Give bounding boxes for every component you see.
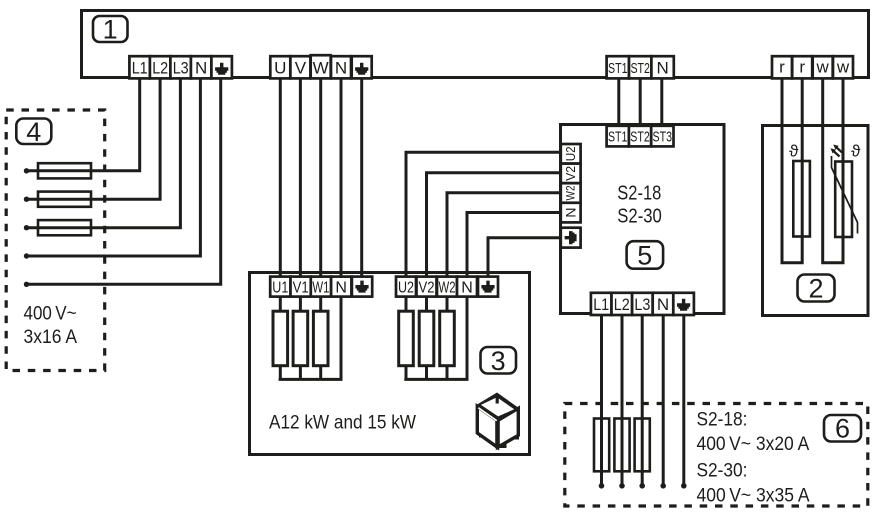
heating element R4 bbox=[399, 311, 414, 366]
label box 4 bbox=[16, 117, 51, 147]
wire controller U2 to heater U2 bbox=[406, 152, 561, 277]
svg-text:r: r bbox=[779, 58, 785, 77]
thermistor diagonal on B2 bbox=[832, 156, 858, 234]
wire L1 from terminal L1 to fuse F1 bbox=[27, 77, 140, 171]
wire L1 controller to fuse bbox=[600, 314, 603, 484]
terminal ST3 (controller 5) bbox=[651, 126, 673, 147]
terminal N (unit 1 mains) bbox=[191, 56, 212, 78]
terminal PE (heater group 2) bbox=[478, 277, 498, 297]
wire controller N to heater N2 bbox=[467, 213, 561, 278]
svg-text:L2: L2 bbox=[614, 296, 630, 314]
terminal ST1 (controller 5) bbox=[607, 126, 629, 147]
svg-text:1: 1 bbox=[103, 15, 118, 45]
element stub W1 bottom bbox=[319, 364, 322, 380]
stub V1 bbox=[299, 295, 302, 312]
terminal N (unit 1 heater feed) bbox=[331, 56, 351, 78]
node dot L3 supply bbox=[24, 225, 29, 230]
svg-text:w: w bbox=[836, 58, 850, 77]
wire sensor loop r-r bbox=[782, 77, 802, 263]
wire ST2 to controller bbox=[639, 77, 642, 126]
fuse F2 bbox=[38, 192, 91, 207]
heating element R2 bbox=[293, 311, 308, 366]
wire controller PE to heater PE2 bbox=[488, 238, 561, 278]
element stub U2 bottom bbox=[405, 364, 408, 380]
svg-text:U1: U1 bbox=[272, 279, 288, 296]
svg-text:V2: V2 bbox=[419, 279, 435, 296]
arrow 1 on sensor B2 bbox=[833, 145, 842, 153]
svg-text:L2: L2 bbox=[152, 59, 168, 77]
terminal N (controller bottom) bbox=[653, 293, 674, 315]
node dot L1 supply bbox=[24, 168, 29, 173]
svg-text:W: W bbox=[313, 58, 329, 77]
fuse F3 bbox=[38, 220, 91, 235]
wire U to U1 bbox=[279, 77, 282, 278]
node dot L2 out bbox=[619, 483, 625, 489]
stub W2 bbox=[446, 295, 449, 312]
star bus group 2 bbox=[404, 295, 467, 379]
svg-text:2: 2 bbox=[808, 274, 823, 304]
terminal U2 (heater) bbox=[396, 277, 416, 297]
terminal L1 (controller bottom) bbox=[591, 293, 612, 315]
fuse F1 bbox=[38, 163, 91, 178]
heater box 3 outline bbox=[250, 273, 530, 455]
svg-text:S2-18: S2-18 bbox=[617, 183, 661, 205]
svg-text:W2: W2 bbox=[565, 186, 577, 201]
fuse F4 bbox=[594, 419, 609, 472]
wire N to heater N bbox=[340, 77, 343, 278]
element stub V2 bottom bbox=[425, 364, 428, 380]
svg-text:S2-18:: S2-18: bbox=[697, 410, 748, 431]
terminal PE (unit 1 heater feed) bbox=[352, 56, 372, 78]
svg-text:N: N bbox=[657, 295, 669, 314]
svg-text:L1: L1 bbox=[593, 296, 609, 314]
wire L3 from terminal L3 to fuse F3 bbox=[27, 77, 181, 228]
wire N to controller ST3 bbox=[660, 77, 663, 126]
terminal r (unit 1) bbox=[772, 56, 792, 78]
terminal L3 (controller bottom) bbox=[632, 293, 653, 315]
svg-text:w: w bbox=[816, 58, 830, 77]
heating element R5 bbox=[419, 311, 434, 366]
terminal U2 (controller left) bbox=[561, 144, 581, 164]
wire controller V2 to heater V2 bbox=[427, 173, 562, 278]
wire L2 controller to fuse bbox=[621, 314, 624, 484]
svg-text:N: N bbox=[335, 279, 347, 296]
svg-text:L1: L1 bbox=[132, 59, 148, 77]
svg-text:ST1: ST1 bbox=[608, 61, 628, 77]
svg-text:N: N bbox=[335, 58, 347, 77]
controller box 5 outline bbox=[561, 125, 725, 314]
svg-text:V1: V1 bbox=[293, 279, 309, 296]
terminal ST2 (controller 5) bbox=[629, 126, 651, 147]
terminal W (unit 1) bbox=[311, 55, 331, 78]
svg-text:U2: U2 bbox=[398, 279, 414, 296]
wire L2 from terminal L2 to fuse F2 bbox=[27, 77, 161, 199]
terminal W2 (heater) bbox=[437, 277, 457, 297]
label box 3 bbox=[481, 346, 517, 376]
stub W1 bbox=[319, 295, 322, 312]
fuse F6 bbox=[635, 419, 650, 472]
wire PE to supply bbox=[27, 77, 221, 284]
text mains rating box 4 bbox=[24, 304, 78, 348]
svg-text:U2: U2 bbox=[563, 146, 578, 161]
svg-text:N: N bbox=[195, 58, 207, 77]
node dot L3 out bbox=[639, 483, 645, 489]
terminal PE (heater group 1) bbox=[352, 277, 372, 297]
sensor element B2 bbox=[835, 162, 852, 238]
fuse F5 bbox=[614, 419, 629, 472]
svg-text:ϑ: ϑ bbox=[789, 142, 799, 161]
wire sensor loop w-w bbox=[823, 77, 843, 263]
wire N to supply bbox=[27, 77, 201, 256]
terminal V2 (controller left) bbox=[561, 164, 581, 184]
terminal N (unit 1 sensor) bbox=[651, 56, 673, 78]
svg-text:ST1: ST1 bbox=[608, 129, 628, 145]
svg-text:W2: W2 bbox=[439, 279, 456, 296]
svg-text:L3: L3 bbox=[173, 59, 189, 77]
sensor unit box 2 outline bbox=[763, 126, 869, 316]
heating element R6 bbox=[440, 311, 455, 366]
svg-text:r: r bbox=[799, 58, 805, 77]
dashed supply box 6 bbox=[565, 404, 868, 507]
element stub V1 bottom bbox=[299, 364, 302, 380]
wire W to W1 bbox=[319, 77, 322, 278]
svg-text:ST3: ST3 bbox=[653, 129, 673, 145]
node dot PE out bbox=[681, 483, 687, 489]
terminal ST1 (unit 1) bbox=[607, 56, 629, 78]
svg-text:S2-30: S2-30 bbox=[617, 206, 662, 228]
heater group 1: stub U1 bbox=[279, 295, 282, 312]
node dot N supply bbox=[24, 253, 29, 258]
wire PE to heater PE bbox=[360, 77, 363, 278]
heater group 2: stub U2 bbox=[405, 295, 408, 312]
terminal N (heater group 1) bbox=[331, 277, 351, 297]
svg-text:ST2: ST2 bbox=[630, 61, 650, 77]
svg-text:N: N bbox=[656, 58, 668, 77]
svg-text:6: 6 bbox=[835, 414, 850, 444]
label box 1 bbox=[93, 15, 128, 45]
terminal PE (controller bottom) bbox=[673, 293, 694, 315]
terminal V2 (heater) bbox=[417, 277, 437, 297]
terminal W2 (controller left) bbox=[561, 183, 581, 203]
svg-text:S2-30:: S2-30: bbox=[697, 460, 748, 481]
wire PE controller to supply bbox=[682, 314, 685, 484]
terminal L3 (unit 1) bbox=[170, 56, 191, 78]
svg-text:W1: W1 bbox=[312, 279, 329, 296]
label box 5 bbox=[627, 241, 664, 271]
heating element R1 bbox=[273, 311, 288, 366]
node dot N out bbox=[660, 483, 666, 489]
svg-text:N: N bbox=[562, 208, 578, 218]
element stub U1 bottom bbox=[279, 364, 282, 380]
element stub W2 bottom bbox=[446, 364, 449, 380]
svg-text:ϑ: ϑ bbox=[851, 142, 861, 161]
node dot L2 supply bbox=[24, 197, 29, 202]
wire N controller to supply bbox=[662, 314, 665, 484]
terminal PE (controller left) bbox=[561, 228, 581, 248]
label box 2 bbox=[798, 274, 835, 304]
star bus group 1 bbox=[279, 295, 341, 379]
svg-text:ST2: ST2 bbox=[630, 129, 650, 145]
dashed supply box 4 bbox=[6, 110, 105, 371]
svg-text:3x16 A: 3x16 A bbox=[24, 327, 78, 348]
svg-text:V2: V2 bbox=[563, 166, 578, 181]
svg-text:400 V~ 3x35 A: 400 V~ 3x35 A bbox=[697, 486, 810, 507]
terminal V1 (heater) bbox=[291, 277, 311, 297]
label box 6 bbox=[824, 414, 861, 444]
wire ST1 to controller bbox=[617, 77, 620, 126]
terminal w (unit 1) bbox=[813, 56, 833, 78]
svg-text:U: U bbox=[274, 58, 286, 77]
terminal w2 (unit 1) bbox=[833, 56, 853, 78]
svg-text:N: N bbox=[461, 279, 473, 296]
sensor element B1 bbox=[793, 161, 810, 237]
svg-text:3: 3 bbox=[491, 346, 506, 376]
terminal W1 (heater) bbox=[311, 277, 331, 297]
heater cube icon bbox=[476, 393, 520, 449]
svg-text:V: V bbox=[295, 58, 307, 77]
terminal ST2 (unit 1) bbox=[629, 56, 651, 78]
wire L3 controller to fuse bbox=[641, 314, 644, 484]
svg-text:400 V~: 400 V~ bbox=[24, 304, 77, 325]
node dot L1 out bbox=[599, 483, 605, 489]
terminal N (controller left) bbox=[561, 203, 581, 223]
terminal L2 (unit 1) bbox=[150, 56, 171, 78]
terminal N (heater group 2) bbox=[457, 277, 477, 297]
svg-text:5: 5 bbox=[637, 241, 652, 271]
terminal r2 (unit 1) bbox=[792, 56, 812, 78]
svg-text:4: 4 bbox=[26, 117, 41, 147]
terminal PE (unit 1 mains) bbox=[211, 56, 232, 78]
svg-text:A12 kW and 15 kW: A12 kW and 15 kW bbox=[269, 413, 416, 434]
terminal L2 (controller bottom) bbox=[612, 293, 633, 315]
wire controller W2 to heater W2 bbox=[447, 193, 561, 278]
svg-text:400 V~ 3x20 A: 400 V~ 3x20 A bbox=[697, 434, 810, 455]
node dot PE supply bbox=[24, 282, 29, 287]
stub V2 bbox=[425, 295, 428, 312]
terminal U (unit 1) bbox=[270, 56, 290, 78]
svg-text:L3: L3 bbox=[634, 296, 650, 314]
unit box 1 (power section outline) bbox=[82, 11, 869, 78]
heating element R3 bbox=[313, 311, 328, 366]
terminal U1 (heater) bbox=[270, 277, 290, 297]
text controller models box 5 bbox=[617, 183, 662, 228]
terminal L1 (unit 1) bbox=[129, 56, 150, 78]
terminal V (unit 1) bbox=[290, 56, 310, 78]
arrow 2 on sensor B2 bbox=[831, 148, 840, 156]
wire V to V1 bbox=[299, 77, 302, 278]
